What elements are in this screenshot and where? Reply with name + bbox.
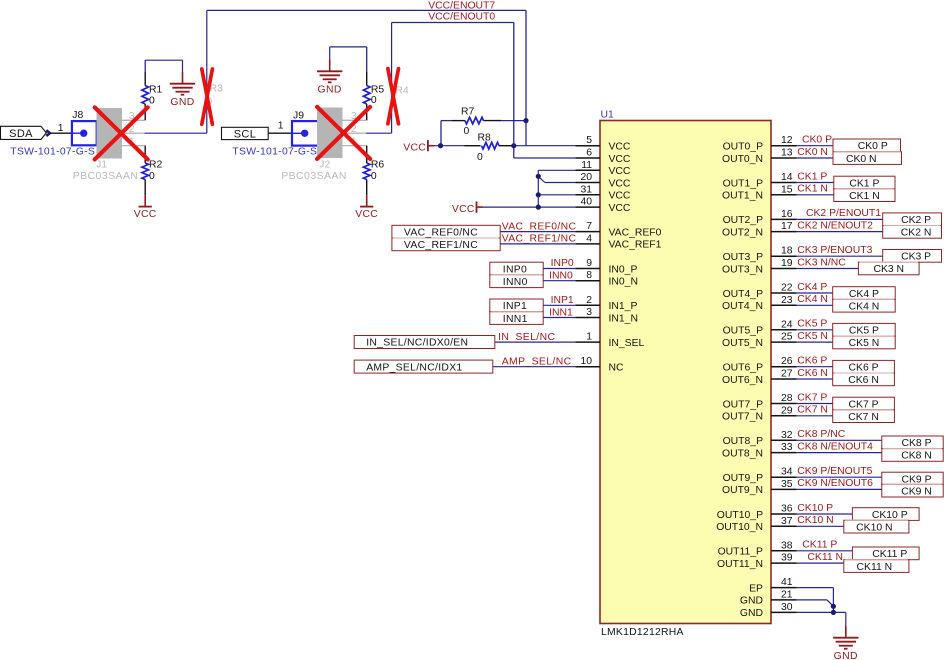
svg-text:INN1: INN1 xyxy=(503,314,528,325)
svg-text:CK6 P: CK6 P xyxy=(797,356,827,367)
svg-text:CK10 N: CK10 N xyxy=(797,515,833,526)
svg-text:J8: J8 xyxy=(72,110,83,121)
svg-text:6: 6 xyxy=(586,148,592,159)
svg-text:CK6 N: CK6 N xyxy=(848,375,879,386)
svg-text:R2: R2 xyxy=(149,160,163,171)
svg-text:PBC03SAAN: PBC03SAAN xyxy=(73,171,139,182)
svg-text:CK3 N/NC: CK3 N/NC xyxy=(797,257,846,268)
svg-text:16: 16 xyxy=(781,209,793,220)
svg-text:CK11 P: CK11 P xyxy=(872,549,907,560)
svg-text:10: 10 xyxy=(580,356,592,367)
svg-text:CK3 P: CK3 P xyxy=(901,252,931,263)
svg-text:OUT7_N: OUT7_N xyxy=(722,412,763,423)
svg-text:26: 26 xyxy=(781,356,793,367)
svg-text:CK8 N: CK8 N xyxy=(901,451,932,462)
svg-text:31: 31 xyxy=(580,184,592,195)
svg-text:CK10 P: CK10 P xyxy=(872,510,908,521)
svg-text:0: 0 xyxy=(371,95,377,106)
svg-text:CK2 N: CK2 N xyxy=(901,228,932,239)
svg-text:CK8 N/ENOUT4: CK8 N/ENOUT4 xyxy=(797,441,873,452)
svg-text:IN1_P: IN1_P xyxy=(609,301,638,312)
svg-text:CK10 N: CK10 N xyxy=(856,522,892,533)
svg-text:INN1: INN1 xyxy=(549,307,573,318)
svg-text:GND: GND xyxy=(740,608,763,619)
svg-text:1: 1 xyxy=(58,123,64,134)
svg-text:SCL: SCL xyxy=(234,128,257,140)
svg-text:CK10 P: CK10 P xyxy=(797,503,833,514)
svg-text:9: 9 xyxy=(586,258,592,269)
svg-text:33: 33 xyxy=(781,442,793,453)
svg-text:CK6 N: CK6 N xyxy=(797,368,828,379)
svg-text:INP1: INP1 xyxy=(503,301,527,312)
svg-text:20: 20 xyxy=(580,172,592,183)
svg-text:27: 27 xyxy=(781,369,793,380)
svg-text:5: 5 xyxy=(586,135,592,146)
svg-text:PBC03SAAN: PBC03SAAN xyxy=(281,171,347,182)
svg-text:1: 1 xyxy=(586,332,592,343)
svg-text:CK0 P: CK0 P xyxy=(858,141,888,152)
svg-text:37: 37 xyxy=(781,516,793,527)
svg-text:22: 22 xyxy=(781,283,793,294)
svg-text:OUT8_N: OUT8_N xyxy=(722,448,763,459)
svg-text:24: 24 xyxy=(781,319,793,330)
svg-text:CK9 P: CK9 P xyxy=(901,474,931,485)
svg-text:CK3 P/ENOUT3: CK3 P/ENOUT3 xyxy=(797,245,872,256)
svg-text:OUT9_P: OUT9_P xyxy=(723,473,763,484)
svg-text:R3: R3 xyxy=(210,84,224,95)
svg-text:34: 34 xyxy=(781,467,793,478)
svg-text:OUT0_N: OUT0_N xyxy=(722,154,763,165)
svg-text:TSW-101-07-G-S: TSW-101-07-G-S xyxy=(232,146,317,157)
svg-text:VCC: VCC xyxy=(609,142,631,153)
svg-text:CK8 P: CK8 P xyxy=(901,438,931,449)
svg-text:IN1_N: IN1_N xyxy=(609,313,638,324)
svg-text:J2: J2 xyxy=(319,159,330,170)
svg-text:19: 19 xyxy=(781,258,793,269)
svg-text:0: 0 xyxy=(149,96,155,107)
svg-text:VAC_REF0/NC: VAC_REF0/NC xyxy=(502,221,577,232)
svg-text:CK4 P: CK4 P xyxy=(797,282,827,293)
svg-text:AMP_SEL/NC: AMP_SEL/NC xyxy=(502,356,572,367)
svg-text:CK4 N: CK4 N xyxy=(797,294,828,305)
svg-text:VCC: VCC xyxy=(452,204,475,215)
svg-text:J1: J1 xyxy=(96,159,107,170)
svg-text:AMP_SEL/NC/IDX1: AMP_SEL/NC/IDX1 xyxy=(366,362,462,373)
svg-text:VCC: VCC xyxy=(609,191,631,202)
svg-text:7: 7 xyxy=(586,221,592,232)
svg-text:LMK1D1212RHA: LMK1D1212RHA xyxy=(601,627,684,638)
svg-text:4: 4 xyxy=(586,233,592,244)
svg-text:GND: GND xyxy=(834,651,858,660)
svg-text:35: 35 xyxy=(781,479,793,490)
svg-text:CK7 N: CK7 N xyxy=(797,405,828,416)
svg-text:OUT1_N: OUT1_N xyxy=(722,191,763,202)
svg-text:J9: J9 xyxy=(293,111,304,122)
svg-text:CK11 P: CK11 P xyxy=(802,540,837,551)
svg-text:CK2 P: CK2 P xyxy=(901,215,931,226)
svg-text:VAC_REF1/NC: VAC_REF1/NC xyxy=(502,234,577,245)
svg-text:VCC/ENOUT0: VCC/ENOUT0 xyxy=(428,12,495,23)
svg-text:8: 8 xyxy=(586,270,592,281)
svg-text:VCC: VCC xyxy=(609,154,631,165)
svg-text:0: 0 xyxy=(477,152,483,163)
svg-text:40: 40 xyxy=(580,197,592,208)
svg-text:OUT3_P: OUT3_P xyxy=(723,252,763,263)
svg-text:30: 30 xyxy=(781,602,793,613)
svg-text:OUT4_P: OUT4_P xyxy=(723,289,763,300)
svg-text:OUT7_P: OUT7_P xyxy=(723,399,763,410)
svg-text:CK1 N: CK1 N xyxy=(797,184,828,195)
svg-text:VAC_REF1: VAC_REF1 xyxy=(609,240,662,251)
svg-text:IN0_P: IN0_P xyxy=(609,264,638,275)
svg-text:0: 0 xyxy=(371,171,377,182)
svg-text:CK0 N: CK0 N xyxy=(846,154,877,165)
svg-text:VCC: VCC xyxy=(609,166,631,177)
svg-text:EP: EP xyxy=(749,583,763,594)
svg-text:OUT5_N: OUT5_N xyxy=(722,338,763,349)
svg-text:IN_SEL/NC: IN_SEL/NC xyxy=(498,332,555,343)
svg-text:OUT6_P: OUT6_P xyxy=(723,363,763,374)
svg-text:38: 38 xyxy=(781,540,793,551)
svg-text:15: 15 xyxy=(781,184,793,195)
svg-text:R4: R4 xyxy=(395,86,409,97)
svg-text:R7: R7 xyxy=(461,106,475,117)
svg-text:R1: R1 xyxy=(149,84,163,95)
svg-text:CK4 P: CK4 P xyxy=(849,289,879,300)
svg-text:SDA: SDA xyxy=(9,128,33,140)
svg-text:CK9 N: CK9 N xyxy=(901,486,932,497)
svg-text:23: 23 xyxy=(781,295,793,306)
svg-text:NC: NC xyxy=(609,363,625,374)
svg-text:41: 41 xyxy=(781,577,793,588)
svg-text:INP1: INP1 xyxy=(551,295,574,306)
svg-text:R6: R6 xyxy=(371,159,385,170)
svg-text:CK8 P/NC: CK8 P/NC xyxy=(797,429,845,440)
svg-text:CK1 N: CK1 N xyxy=(849,191,880,202)
svg-text:32: 32 xyxy=(781,430,793,441)
svg-text:INP0: INP0 xyxy=(551,258,574,269)
svg-text:0: 0 xyxy=(149,171,155,182)
svg-text:OUT3_N: OUT3_N xyxy=(722,264,763,275)
svg-text:12: 12 xyxy=(781,135,793,146)
svg-text:13: 13 xyxy=(781,148,793,159)
svg-text:CK5 N: CK5 N xyxy=(849,338,880,349)
svg-text:OUT9_N: OUT9_N xyxy=(722,485,763,496)
svg-text:29: 29 xyxy=(781,405,793,416)
svg-text:CK7 N: CK7 N xyxy=(848,412,879,423)
svg-text:CK2 N/ENOUT2: CK2 N/ENOUT2 xyxy=(797,220,873,231)
svg-text:INN0: INN0 xyxy=(549,271,573,282)
svg-text:VCC: VCC xyxy=(134,209,157,220)
svg-text:CK5 P: CK5 P xyxy=(797,319,827,330)
svg-text:CK0 N: CK0 N xyxy=(797,147,828,158)
svg-text:OUT4_N: OUT4_N xyxy=(722,301,763,312)
svg-text:1: 1 xyxy=(278,120,284,131)
svg-text:INP0: INP0 xyxy=(503,264,527,275)
svg-text:OUT11_P: OUT11_P xyxy=(718,547,763,558)
svg-text:GND: GND xyxy=(170,97,194,108)
svg-text:R5: R5 xyxy=(371,85,385,96)
svg-text:INN0: INN0 xyxy=(503,277,528,288)
svg-text:OUT10_P: OUT10_P xyxy=(717,510,763,521)
svg-text:OUT2_N: OUT2_N xyxy=(722,227,763,238)
svg-text:OUT6_N: OUT6_N xyxy=(722,375,763,386)
svg-text:OUT0_P: OUT0_P xyxy=(723,142,763,153)
svg-text:U1: U1 xyxy=(601,110,615,121)
svg-text:21: 21 xyxy=(781,589,793,600)
svg-text:CK11 N: CK11 N xyxy=(807,552,843,563)
svg-text:CK5 N: CK5 N xyxy=(797,331,828,342)
svg-text:2: 2 xyxy=(586,295,592,306)
svg-text:25: 25 xyxy=(781,332,793,343)
svg-text:OUT11_N: OUT11_N xyxy=(717,559,763,570)
svg-text:CK7 P: CK7 P xyxy=(849,399,879,410)
svg-text:IN_SEL/NC/IDX0/EN: IN_SEL/NC/IDX0/EN xyxy=(366,338,468,349)
svg-text:CK1 P: CK1 P xyxy=(797,171,827,182)
svg-text:CK9 P/ENOUT5: CK9 P/ENOUT5 xyxy=(797,466,872,477)
svg-text:VCC: VCC xyxy=(403,142,426,153)
svg-text:VCC/ENOUT7: VCC/ENOUT7 xyxy=(428,0,495,11)
svg-text:OUT5_P: OUT5_P xyxy=(723,326,763,337)
svg-text:CK1 P: CK1 P xyxy=(849,178,879,189)
svg-text:VCC: VCC xyxy=(355,209,378,220)
svg-text:VAC_REF0/NC: VAC_REF0/NC xyxy=(404,227,478,238)
svg-text:CK3 N: CK3 N xyxy=(873,264,904,275)
svg-text:IN0_N: IN0_N xyxy=(609,277,638,288)
svg-text:GND: GND xyxy=(318,85,342,96)
svg-text:OUT10_N: OUT10_N xyxy=(716,522,763,533)
svg-text:OUT8_P: OUT8_P xyxy=(723,436,763,447)
svg-text:CK6 P: CK6 P xyxy=(849,362,879,373)
svg-text:CK0 P: CK0 P xyxy=(802,135,832,146)
svg-text:17: 17 xyxy=(781,221,793,232)
svg-text:3: 3 xyxy=(586,307,592,318)
svg-text:0: 0 xyxy=(464,126,470,137)
svg-text:36: 36 xyxy=(781,504,793,515)
svg-text:11: 11 xyxy=(581,160,592,171)
svg-text:VCC: VCC xyxy=(609,203,631,214)
svg-text:IN_SEL: IN_SEL xyxy=(609,338,645,349)
svg-text:39: 39 xyxy=(781,553,793,564)
svg-text:GND: GND xyxy=(740,596,763,607)
svg-text:VAC_REF1/NC: VAC_REF1/NC xyxy=(404,240,478,251)
svg-text:TSW-101-07-G-S: TSW-101-07-G-S xyxy=(10,147,95,158)
svg-text:OUT2_P: OUT2_P xyxy=(723,215,763,226)
svg-text:VAC_REF0: VAC_REF0 xyxy=(609,227,662,238)
svg-text:CK2 P/ENOUT1: CK2 P/ENOUT1 xyxy=(806,208,881,219)
svg-text:R8: R8 xyxy=(478,133,492,144)
svg-text:CK11 N: CK11 N xyxy=(857,562,893,573)
svg-text:OUT1_P: OUT1_P xyxy=(723,178,763,189)
svg-text:18: 18 xyxy=(781,246,793,257)
svg-text:VCC: VCC xyxy=(609,178,631,189)
svg-text:28: 28 xyxy=(781,393,793,404)
svg-text:CK5 P: CK5 P xyxy=(849,325,879,336)
svg-text:CK9 N/ENOUT6: CK9 N/ENOUT6 xyxy=(797,478,873,489)
svg-text:CK7 P: CK7 P xyxy=(797,392,827,403)
svg-text:14: 14 xyxy=(781,172,793,183)
svg-text:CK4 N: CK4 N xyxy=(849,301,880,312)
